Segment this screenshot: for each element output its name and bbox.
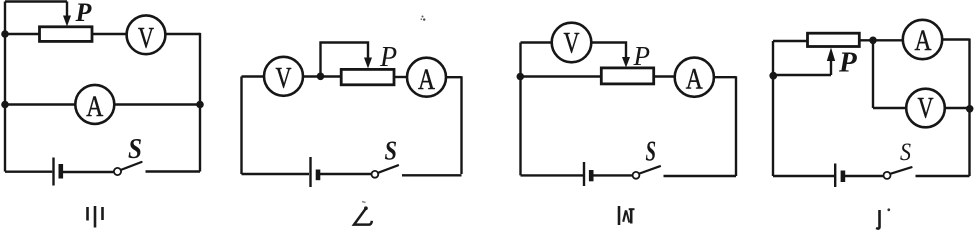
svg-text:P: P: [633, 41, 651, 71]
rheostat P (circuit 3): [601, 68, 653, 84]
wire: left rail (circuit 4): [772, 41, 774, 176]
wire: rheostat to voltmeter (circuit 1): [92, 33, 127, 35]
battery positive plate (circuit 4): [834, 164, 836, 188]
wire: wiper riser (circuit 2): [321, 43, 369, 77]
switch S blade (circuit 2): [378, 165, 398, 173]
voltmeter V (circuit 1): [127, 15, 166, 54]
wire: middle rail left (circuit 1): [5, 103, 75, 105]
wire: battery to switch (circuit 1): [63, 171, 114, 173]
wire: switch to right rail (circuit 1): [146, 170, 201, 172]
battery negative plate (circuit 3): [589, 170, 594, 181]
wire: rail to rheostat (circuit 4): [773, 40, 807, 42]
wire: right rail (circuit 4): [968, 39, 970, 177]
svg-text:S: S: [385, 136, 398, 166]
svg-text:A: A: [418, 63, 435, 96]
wire: rheostat to ammeter (circuit 3): [654, 75, 675, 77]
label 丁 (circuit 4 caption): [876, 208, 890, 228]
battery positive plate (circuit 3): [583, 162, 585, 186]
wire: ammeter to right rail (circuit 3): [714, 76, 736, 78]
voltmeter V (circuit 3): [552, 23, 592, 63]
label 丙 (circuit 3 caption): [619, 206, 635, 225]
switch S pivot (circuit 2): [372, 171, 379, 178]
wire: right rail (circuit 1): [199, 33, 201, 172]
switch S blade (circuit 3): [639, 166, 660, 173]
switch S blade (circuit 1): [121, 162, 142, 170]
arrowhead of wiper P (circuit 2): [364, 58, 372, 69]
wire: battery to switch (circuit 3): [593, 174, 632, 176]
ammeter A (circuit 3): [675, 58, 714, 97]
voltmeter V (circuit 4): [906, 89, 945, 128]
svg-text:P: P: [75, 0, 93, 27]
svg-text:S: S: [128, 134, 142, 165]
battery positive plate (circuit 1): [52, 158, 54, 186]
svg-text:A: A: [86, 90, 103, 123]
svg-text:S: S: [900, 139, 911, 166]
svg-text:A: A: [915, 24, 932, 57]
node: left middle junction (circuit 1): [1, 101, 9, 109]
wire: right rail (circuit 3): [735, 76, 737, 176]
ammeter A (circuit 1): [75, 85, 114, 124]
switch S pivot (circuit 1): [114, 168, 121, 175]
svg-text:S: S: [646, 136, 657, 168]
label 乙 (circuit 2 caption): [354, 202, 372, 225]
wire: voltmeter to rheostat (circuit 2): [303, 75, 341, 77]
voltmeter V (circuit 2): [264, 57, 303, 96]
wire: switch to right rail (circuit 4): [916, 175, 970, 177]
wire: rail to rheostat (circuit 3): [521, 75, 602, 77]
wire: voltmeter to right rail (circuit 1): [165, 33, 200, 35]
node: wiper tap junction (circuit 4): [769, 72, 777, 80]
node: right middle junction (circuit 1): [196, 101, 204, 109]
wire: left rail (circuit 3): [519, 43, 521, 176]
battery negative plate (circuit 2): [316, 170, 321, 181]
svg-text:P: P: [838, 47, 857, 79]
wire: voltmeter to wiper drop (circuit 3): [591, 43, 626, 58]
arrowhead of wiper P (circuit 1): [63, 16, 71, 27]
svg-text:V: V: [138, 22, 154, 55]
switch S blade (circuit 4): [890, 167, 911, 174]
wire: rheostat to ammeter (circuit 4): [861, 39, 904, 41]
node: left junction (circuit 3): [517, 73, 525, 81]
svg-text:V: V: [564, 27, 580, 60]
wire: rail to voltmeter (circuit 2): [242, 75, 266, 77]
wire: bottom rail left (circuit 1): [5, 170, 52, 172]
svg-text:V: V: [918, 92, 934, 125]
arrowhead of wiper P (circuit 4, pointing up): [827, 48, 835, 62]
node: voltmeter branch junction (circuit 4): [966, 105, 974, 113]
wire: voltmeter branch drop (circuit 4): [872, 40, 874, 108]
ammeter A (circuit 4): [903, 20, 942, 59]
scan speck near top centre: [421, 16, 426, 21]
wire: switch to right rail (circuit 2): [402, 174, 462, 176]
wire: rheostat to ammeter (circuit 2): [394, 76, 407, 78]
wire: branch to voltmeter (circuit 4): [873, 107, 907, 109]
rheostat P (circuit 2): [341, 69, 394, 84]
label 甲 (circuit 1 caption): [88, 206, 103, 228]
wire: battery to switch (circuit 2): [320, 173, 372, 175]
battery negative plate (circuit 1): [58, 164, 63, 179]
wire: voltmeter to right rail (circuit 4): [945, 107, 970, 109]
node: wiper tap junction (circuit 2): [317, 73, 325, 81]
node: meter branch junction (circuit 4): [869, 37, 877, 45]
switch S pivot (circuit 4): [884, 172, 891, 179]
battery negative plate (circuit 4): [841, 171, 846, 183]
wire: bottom rail left (circuit 4): [773, 175, 834, 177]
wire: middle rail right (circuit 1): [114, 103, 200, 105]
switch S pivot (circuit 3): [633, 172, 640, 179]
wire: wiper riser (circuit 4): [830, 60, 832, 75]
wire: bottom rail left (circuit 3): [521, 174, 584, 176]
wire: right rail (circuit 2): [460, 76, 462, 174]
wire: left rail (circuit 1): [4, 2, 6, 172]
wire: wiper vertical drop (circuit 1): [66, 2, 68, 17]
battery positive plate (circuit 2): [309, 157, 311, 187]
wire: ammeter to right rail (circuit 4): [942, 38, 970, 40]
wire: rail to voltmeter (circuit 3): [521, 41, 553, 43]
svg-text:V: V: [276, 62, 292, 95]
svg-text:A: A: [686, 62, 703, 95]
wire: rail to rheostat (circuit 1): [5, 33, 40, 35]
wire: left rail (circuit 2): [240, 77, 242, 175]
rheostat P (circuit 4): [808, 33, 860, 46]
rheostat P (circuit 1): [40, 27, 93, 42]
wire: ammeter to right rail (circuit 2): [446, 76, 462, 78]
wire: bottom rail left (circuit 2): [242, 173, 310, 175]
ammeter A (circuit 2): [407, 58, 446, 97]
node: left top junction (circuit 1): [1, 30, 9, 38]
arrowhead of wiper P (circuit 3): [622, 57, 630, 68]
wire: top wiper lead (circuit 1): [5, 0, 67, 2]
wire: switch to right rail (circuit 3): [664, 175, 737, 177]
wire: wiper tap lead (circuit 4): [773, 74, 831, 76]
wire: battery to switch (circuit 4): [845, 175, 884, 177]
